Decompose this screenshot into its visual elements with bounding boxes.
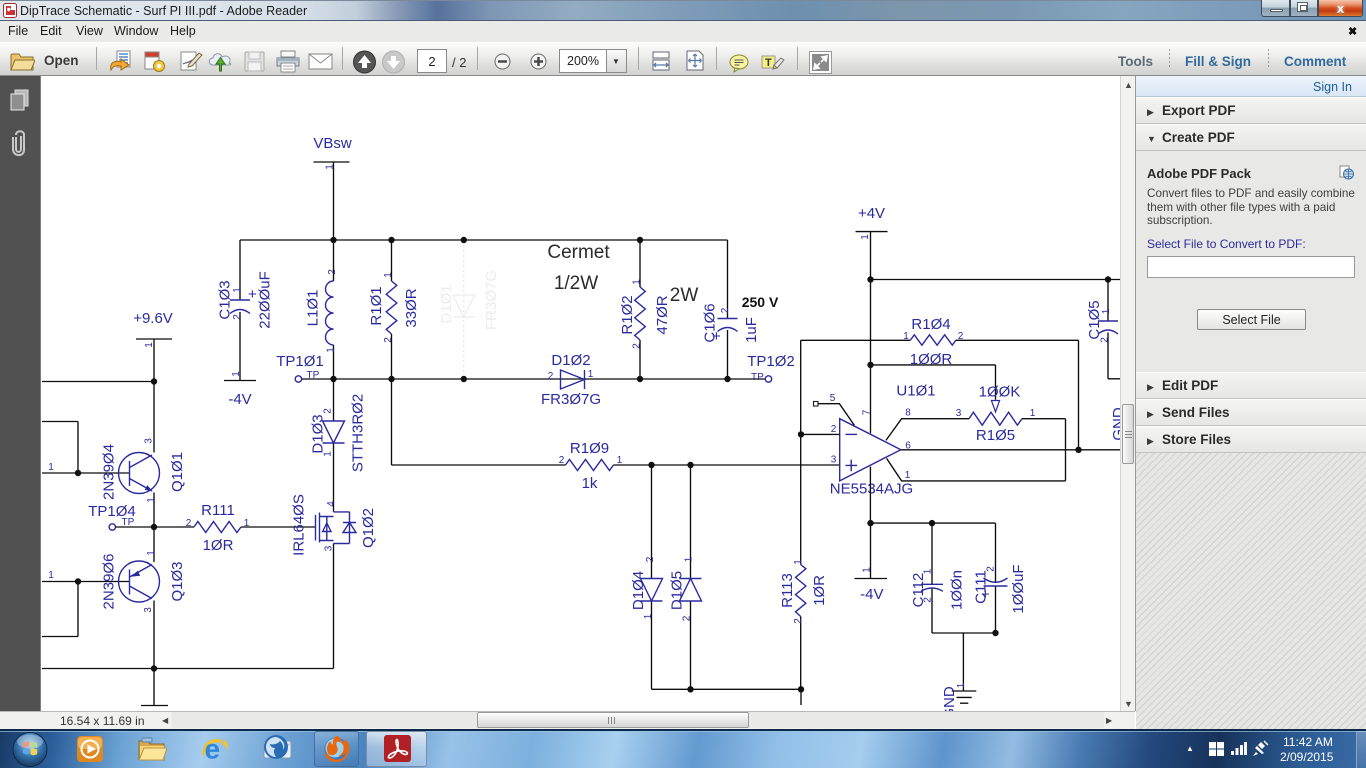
svg-text:e: e (205, 734, 221, 765)
svg-text:2: 2 (383, 337, 394, 343)
capacitor C103 (217, 240, 274, 381)
adobe reader button (366, 731, 427, 767)
pin 1 (887, 458, 1066, 481)
svg-text:-4V: -4V (228, 391, 251, 408)
svg-text:D1Ø1: D1Ø1 (438, 284, 455, 323)
svg-text:1: 1 (905, 470, 911, 481)
svg-text:D1Ø2: D1Ø2 (551, 352, 590, 369)
svg-text:2: 2 (632, 343, 643, 349)
svg-text:6: 6 (905, 441, 911, 452)
svg-text:250 V: 250 V (742, 294, 779, 310)
svg-text:2N39Ø4: 2N39Ø4 (101, 444, 118, 500)
svg-text:1: 1 (146, 497, 157, 503)
tray (1186, 744, 1194, 753)
svg-text:TP: TP (307, 370, 320, 381)
resistor R111 10R (186, 502, 315, 554)
svg-text:2: 2 (1100, 337, 1111, 343)
power +4V (856, 205, 888, 433)
internet explorer (200, 733, 231, 764)
wire +4V rail (867, 276, 1120, 282)
pin 2 (801, 433, 840, 435)
status bar (0, 711, 1135, 729)
svg-text:2: 2 (831, 424, 837, 435)
start orb (11, 731, 49, 768)
svg-text:FR3Ø7G: FR3Ø7G (541, 391, 601, 408)
svg-text:1: 1 (632, 279, 643, 285)
svg-text:2: 2 (548, 371, 554, 382)
svg-text:C1Ø3: C1Ø3 (217, 280, 234, 319)
svg-text:Q1Ø1: Q1Ø1 (169, 452, 186, 492)
svg-text:NE5534AJG: NE5534AJG (830, 481, 913, 498)
wire coil connector stubs upper (42, 422, 130, 477)
svg-text:1uF: 1uF (743, 317, 760, 343)
diode D102 FR307G (541, 352, 601, 408)
svg-text:2: 2 (186, 518, 192, 529)
wmp (76, 735, 104, 763)
svg-text:1ØR: 1ØR (811, 575, 828, 606)
svg-text:R1Ø2: R1Ø2 (619, 295, 636, 334)
testpoint TP104 (88, 503, 194, 530)
svg-text:VBsw: VBsw (313, 135, 352, 152)
svg-text:+9.6V: +9.6V (133, 310, 173, 327)
toolbar (0, 42, 1366, 76)
svg-text:1: 1 (793, 559, 804, 565)
svg-text:+: + (712, 328, 721, 345)
svg-text:C1Ø5: C1Ø5 (1086, 300, 1103, 339)
svg-text:1: 1 (244, 518, 250, 529)
transistor Q101 2N3904 (101, 438, 187, 527)
svg-text:1ØØn: 1ØØn (949, 570, 966, 610)
svg-text:2: 2 (986, 566, 997, 572)
inductor L101 (305, 240, 339, 379)
svg-text:8: 8 (905, 408, 911, 419)
transistor Q103 2N3906 (101, 527, 187, 669)
transistor Q102 IRL640S (291, 494, 378, 668)
svg-text:D1Ø5: D1Ø5 (669, 571, 686, 610)
svg-text:1: 1 (862, 567, 873, 573)
svg-text:R1Ø4: R1Ø4 (911, 316, 950, 333)
svg-text:T: T (765, 57, 772, 69)
svg-text:3: 3 (956, 408, 962, 419)
resistor R113 10R (779, 340, 828, 689)
svg-text:1: 1 (588, 369, 594, 380)
svg-text:1ØØuF: 1ØØuF (1010, 564, 1027, 613)
capacitor C112 100n (910, 523, 966, 633)
wire top rail (240, 239, 728, 241)
svg-text:1: 1 (326, 347, 337, 353)
svg-text:R113: R113 (779, 573, 796, 608)
svg-text:1: 1 (325, 164, 336, 170)
svg-text:TP1Ø1: TP1Ø1 (276, 353, 324, 370)
wire Q103 stubs lower (42, 570, 130, 637)
svg-text:2N39Ø6: 2N39Ø6 (101, 554, 118, 610)
svg-text:IRL64ØS: IRL64ØS (291, 494, 308, 556)
ground GND (941, 633, 976, 720)
svg-text:2: 2 (958, 331, 964, 342)
testpoint TP101 (276, 353, 324, 382)
resistor R101 330R (368, 240, 420, 379)
svg-text:2: 2 (559, 455, 565, 466)
wire +9.6V net (42, 381, 154, 383)
svg-text:D1Ø4: D1Ø4 (630, 571, 647, 610)
svg-text:1k: 1k (582, 475, 598, 492)
svg-text:2: 2 (793, 618, 804, 624)
svg-text:1ØØK: 1ØØK (979, 384, 1021, 401)
svg-text:2: 2 (720, 307, 731, 313)
svg-text:TP1Ø2: TP1Ø2 (747, 353, 795, 370)
svg-text:1: 1 (923, 568, 934, 574)
testpoint TP102 (747, 353, 795, 383)
svg-text:FR3Ø7G: FR3Ø7G (483, 270, 500, 330)
svg-text:TP: TP (751, 372, 764, 383)
svg-text:1: 1 (956, 682, 967, 688)
resistor R109 1k (392, 379, 840, 492)
svg-text:1: 1 (146, 550, 157, 556)
firefox button (314, 731, 359, 767)
potentiometer R105 100K (867, 362, 1065, 481)
svg-text:Q1Ø3: Q1Ø3 (169, 561, 186, 601)
svg-text:5: 5 (830, 393, 836, 404)
svg-text:3: 3 (144, 438, 155, 444)
svg-text:4: 4 (326, 501, 337, 507)
svg-text:33ØR: 33ØR (403, 288, 420, 327)
pin 5 (814, 402, 819, 407)
ghost component D101 (faded) (438, 245, 500, 375)
wire bottom-left rail (42, 665, 334, 705)
svg-text:2W: 2W (670, 285, 699, 306)
svg-text:1: 1 (144, 342, 155, 348)
svg-text:1: 1 (48, 462, 54, 473)
svg-text:+4V: +4V (858, 205, 885, 222)
svg-text:GND: GND (941, 686, 958, 711)
main area (0, 76, 41, 711)
resistor R104 100R (801, 316, 1079, 450)
svg-text:1: 1 (232, 287, 243, 293)
svg-text:2: 2 (327, 269, 338, 275)
svg-text:2: 2 (645, 556, 656, 562)
svg-text:3: 3 (831, 455, 837, 466)
svg-text:R1Ø9: R1Ø9 (570, 440, 609, 457)
svg-text:1ØR: 1ØR (203, 537, 234, 554)
svg-text:3: 3 (324, 545, 335, 551)
wire bottom mid rail (652, 686, 805, 705)
power +9.6V (133, 310, 173, 453)
thunderbird (262, 733, 293, 764)
svg-text:1: 1 (1101, 308, 1112, 314)
svg-text:1: 1 (231, 371, 242, 377)
svg-text:R1Ø5: R1Ø5 (976, 427, 1015, 444)
svg-text:1: 1 (383, 272, 394, 278)
svg-text:1: 1 (1030, 408, 1036, 419)
svg-text:GND: GND (1110, 407, 1120, 441)
node top rail junctions (330, 237, 643, 243)
svg-text:1: 1 (684, 556, 695, 562)
svg-text:1: 1 (48, 570, 54, 581)
svg-text:Cermet: Cermet (547, 242, 610, 263)
svg-text:Q1Ø2: Q1Ø2 (360, 508, 377, 548)
svg-text:2: 2 (232, 314, 243, 320)
svg-text:22ØØuF: 22ØØuF (257, 271, 274, 329)
svg-text:2: 2 (923, 597, 934, 603)
svg-text:R111: R111 (201, 502, 235, 519)
svg-text:1/2W: 1/2W (554, 273, 598, 294)
capacitor C111 100uF (973, 523, 1028, 633)
resistor R102 470R (619, 240, 671, 379)
pin 8 (886, 419, 969, 441)
capacitor C106 1uF (702, 240, 761, 379)
title bar (0, 0, 1366, 21)
diode D104 (630, 465, 663, 689)
diode D105 (669, 465, 702, 689)
power VBsw (313, 135, 352, 240)
svg-text:1: 1 (323, 451, 334, 457)
sign-in bar (1136, 76, 1366, 97)
svg-text:D1Ø3: D1Ø3 (310, 414, 327, 453)
power -4V mid (855, 520, 888, 603)
node bottom rail junctions (330, 376, 730, 382)
explorer folder (138, 736, 167, 762)
svg-text:47ØR: 47ØR (654, 295, 671, 334)
svg-text:1: 1 (643, 613, 654, 619)
capacitor C105 (1086, 280, 1120, 379)
svg-text:2: 2 (323, 408, 334, 414)
op-amp U101 NE5534AJG (798, 383, 1120, 524)
menu bar (0, 21, 1366, 42)
svg-text:-4V: -4V (860, 586, 883, 603)
node +9.6V junction (151, 378, 157, 384)
power -4V left (224, 371, 256, 408)
svg-text:U1Ø1: U1Ø1 (896, 383, 935, 400)
pin 6 (901, 449, 1120, 451)
wire bottom rail (302, 378, 766, 380)
svg-text:1: 1 (617, 455, 623, 466)
taskbar (0, 729, 1366, 768)
wire cap bottom rail (932, 630, 999, 636)
svg-text:3: 3 (143, 607, 154, 613)
pin 4 (869, 467, 871, 523)
svg-text:1: 1 (860, 234, 871, 240)
svg-text:STTH3RØ2: STTH3RØ2 (350, 394, 367, 472)
svg-text:L1Ø1: L1Ø1 (305, 290, 322, 327)
svg-text:7: 7 (862, 409, 873, 415)
svg-text:+: + (981, 586, 990, 603)
svg-text:R1Ø1: R1Ø1 (368, 286, 385, 325)
svg-text:1: 1 (903, 331, 909, 342)
wire cap top rail (871, 520, 996, 526)
diode D103 STTH3R02 (310, 379, 367, 512)
svg-text:2: 2 (682, 615, 693, 621)
